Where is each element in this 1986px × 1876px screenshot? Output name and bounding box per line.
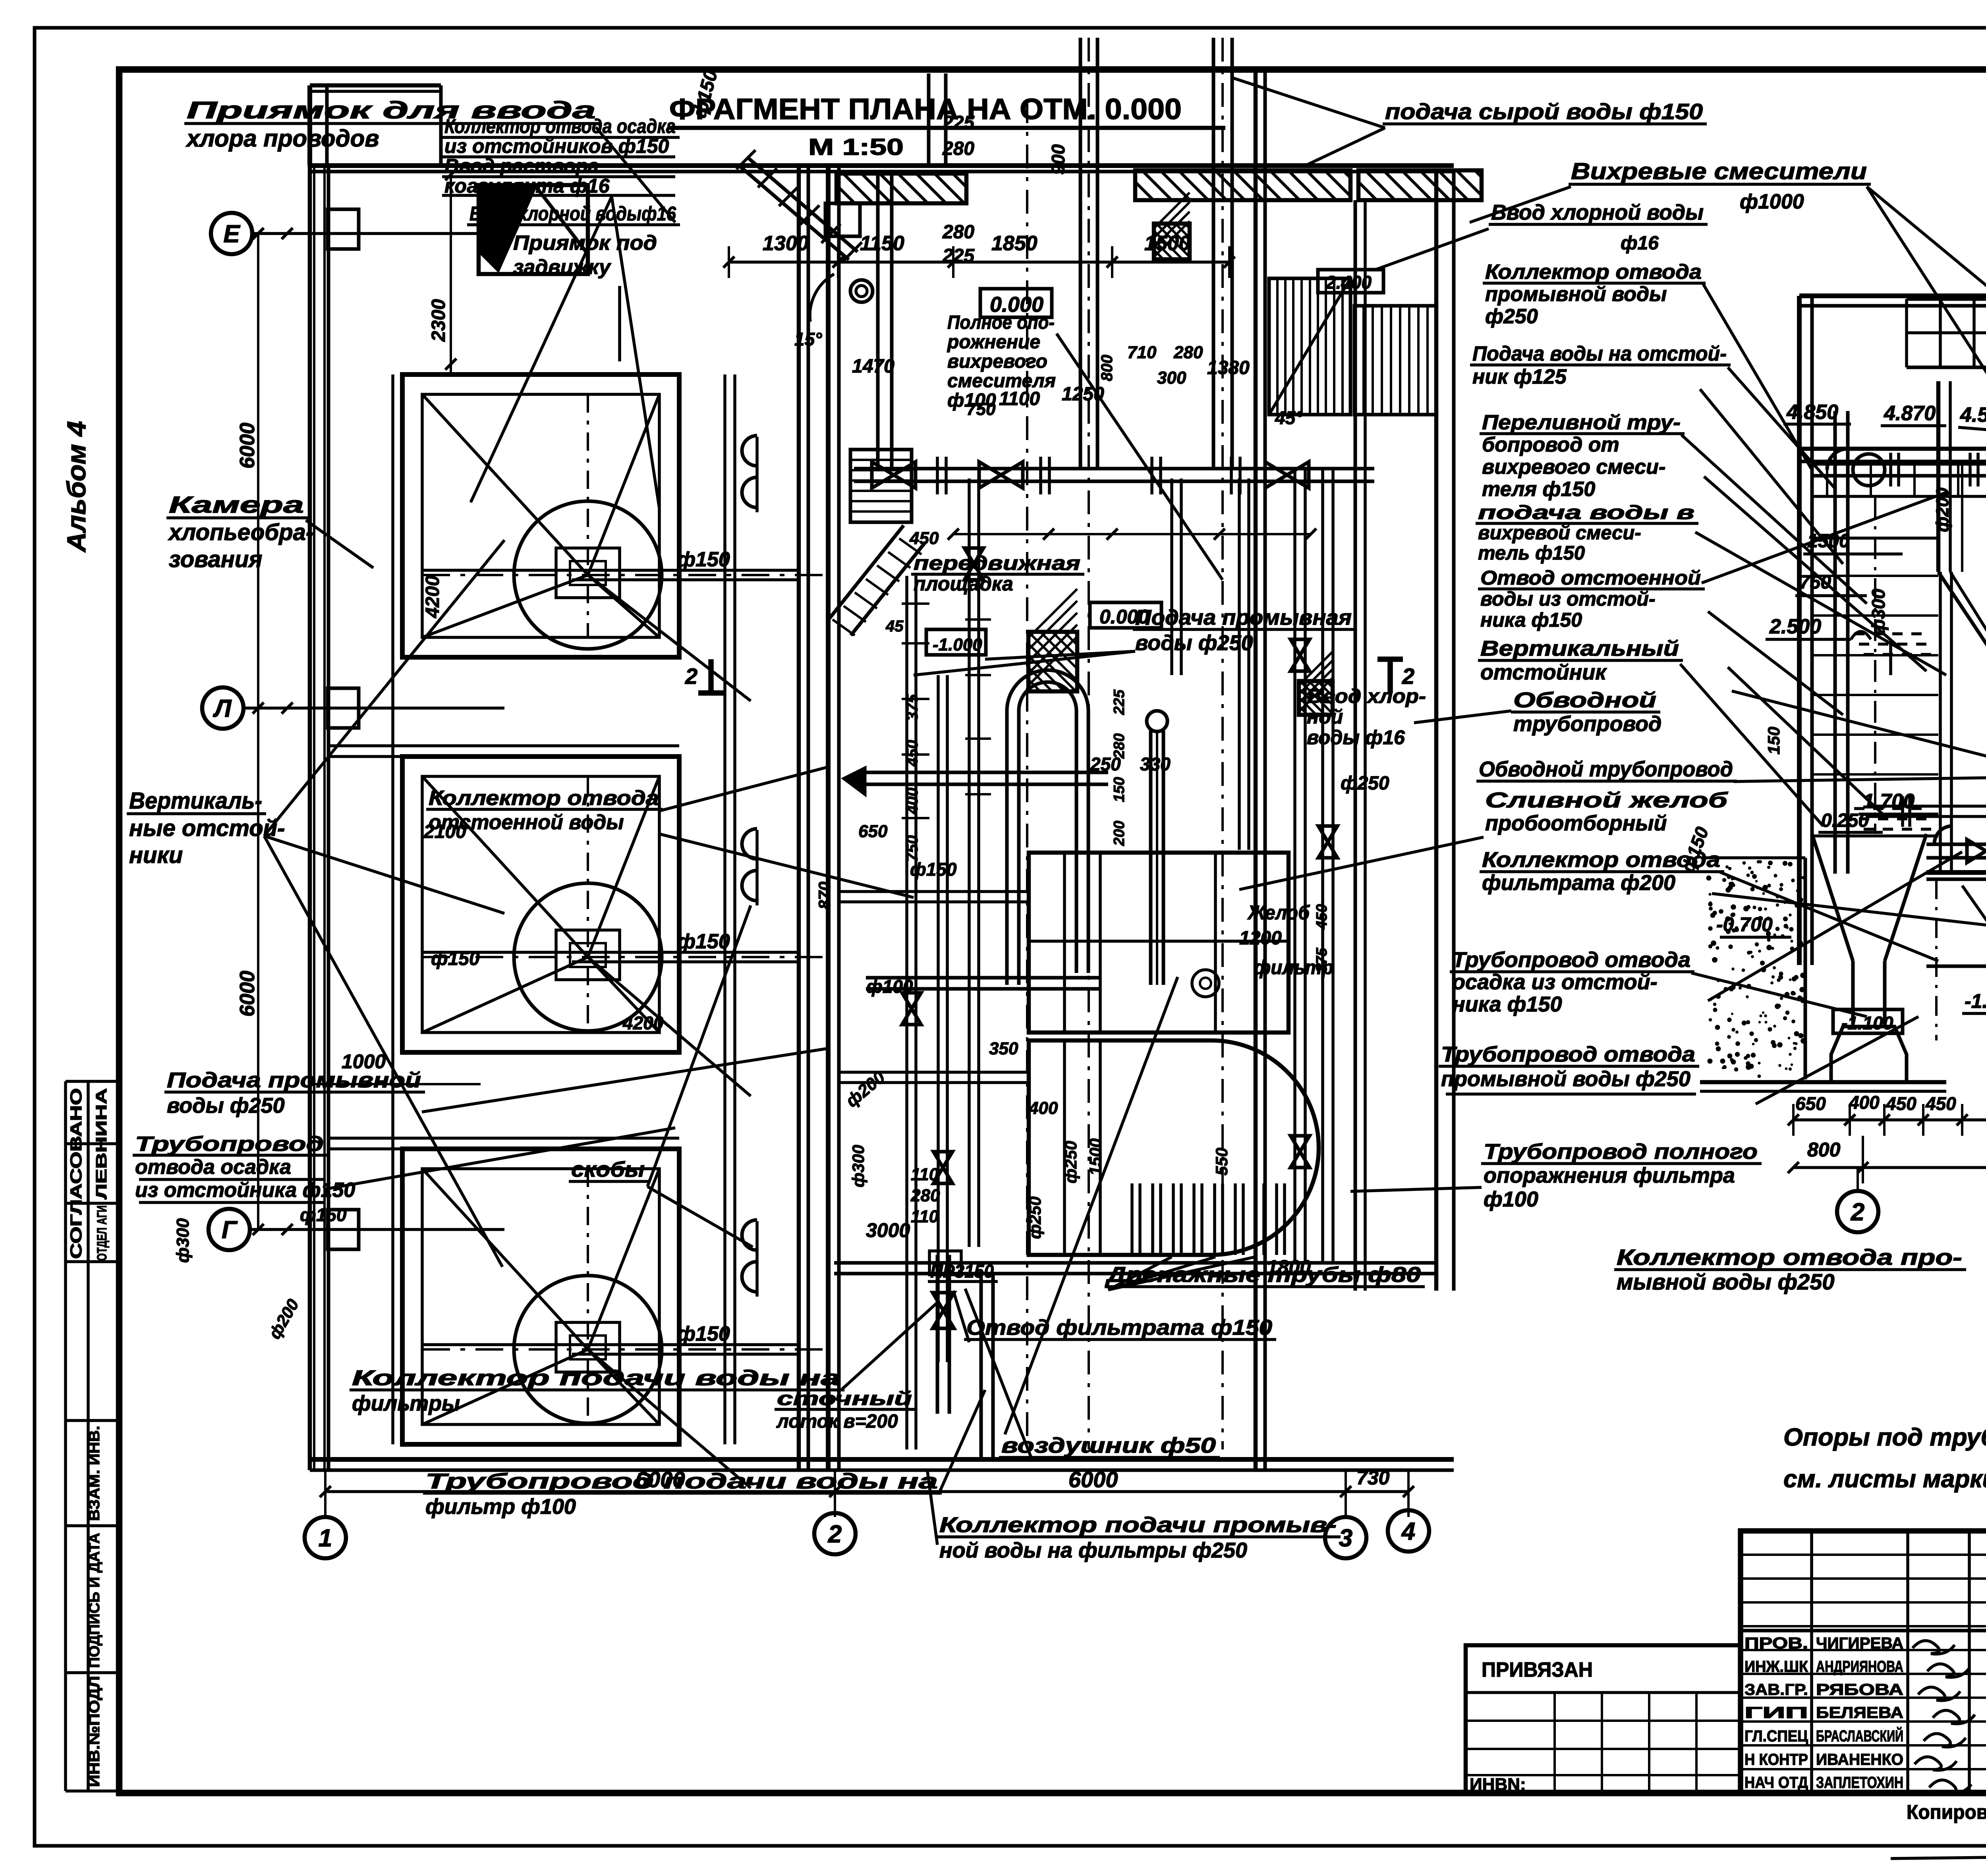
svg-text:650: 650 [858,822,888,841]
svg-text:2.500: 2.500 [1769,615,1821,638]
svg-text:Трубопровод отвода: Трубопровод отвода [1441,1042,1695,1066]
svg-text:800: 800 [1807,1139,1841,1161]
svg-text:Коллектор отвода: Коллектор отвода [429,787,659,810]
settler tank 3 [402,1149,679,1444]
svg-text:ф250: ф250 [1061,1141,1080,1183]
bottom pipe riser 1 [936,1255,939,1414]
svg-text:ФРАГМЕНТ ПЛАНА НА ОТМ. 0.000: ФРАГМЕНТ ПЛАНА НА ОТМ. 0.000 [669,93,1182,125]
svg-text:4200: 4200 [622,1013,664,1033]
svg-text:воды ф250: воды ф250 [167,1094,285,1117]
svg-text:задвижку: задвижку [513,256,612,279]
svg-text:ф150: ф150 [677,548,730,571]
svg-text:БЕЛЯЕВА: БЕЛЯЕВА [1816,1704,1903,1722]
svg-text:промывной воды ф250: промывной воды ф250 [1441,1067,1690,1091]
svg-text:ные отстой-: ные отстой- [129,815,285,841]
svg-text:Трубопровод отвода: Трубопровод отвода [1452,948,1690,972]
section cut mark 2 left [708,659,714,693]
settler brick texture [1812,575,1938,577]
svg-text:150: 150 [1111,777,1128,802]
axis circle 3 [1325,1517,1366,1558]
svg-text:ф250: ф250 [1026,1197,1044,1239]
svg-text:225: 225 [1111,689,1128,715]
svg-text:Копировал: Коршунова: Копировал: Коршунова [1907,1801,1986,1823]
svg-text:смесителя: смесителя [947,371,1056,392]
filter hall horizontal pipes [839,890,1029,893]
riser below wall [876,175,880,469]
section dimension chain [1793,1118,1986,1121]
filter tank 1 [1029,853,1289,1033]
axis circle 1 [305,1517,346,1558]
svg-text:110: 110 [911,1165,939,1184]
svg-text:ОТДЕЛ АГИ: ОТДЕЛ АГИ [95,1205,110,1261]
svg-text:350: 350 [989,1039,1018,1058]
svg-text:отвода осадка: отвода осадка [135,1156,291,1179]
settler cone [1812,834,1853,961]
svg-text:400: 400 [1849,1092,1880,1113]
svg-text:330: 330 [1140,754,1171,774]
svg-text:870: 870 [815,882,834,909]
svg-text:промывной воды: промывной воды [1485,283,1667,306]
axis circle Л [202,687,243,729]
section floor 0.000 [1926,870,1986,875]
svg-text:фильтрата ф200: фильтрата ф200 [1482,871,1675,895]
svg-text:ИВАНЕНКО: ИВАНЕНКО [1816,1751,1903,1768]
svg-text:ИНВN:: ИНВN: [1470,1775,1526,1794]
svg-text:280: 280 [942,138,974,159]
svg-text:375: 375 [904,694,921,721]
svg-text:пробоотборный: пробоотборный [1485,811,1667,835]
svg-text:900: 900 [1048,144,1068,175]
hatched wall segment 1 [837,174,966,203]
svg-text:Переливной тру-: Переливной тру- [1482,411,1681,434]
svg-text:400: 400 [904,787,921,814]
svg-text:225: 225 [942,112,975,133]
svg-text:1500: 1500 [1086,1139,1105,1175]
svg-text:теля ф150: теля ф150 [1482,478,1595,501]
svg-text:1850: 1850 [991,232,1037,255]
svg-text:Ввод хлор-: Ввод хлор- [1307,685,1426,707]
svg-text:550: 550 [1212,1148,1231,1175]
svg-text:Коллектор подачи воды на: Коллектор подачи воды на [352,1366,840,1390]
svg-text:ЛЕВНИНА: ЛЕВНИНА [93,1088,110,1199]
svg-text:СОГЛАСОВАНО: СОГЛАСОВАНО [68,1088,85,1259]
svg-text:Подача промывной: Подача промывной [167,1068,421,1092]
signatures scribbles [1913,1641,1955,1654]
low pipe left [1926,843,1986,846]
main title block [1741,1531,1986,1793]
plan bottom wall [310,1457,1454,1462]
diagonal pipe with hatch [740,166,849,260]
svg-text:ф100: ф100 [866,976,913,997]
svg-text:2: 2 [1851,1199,1864,1226]
wall band between tanks 1-2 [402,656,679,659]
svg-text:ф150: ф150 [677,1322,730,1345]
axis circle 4 [1388,1510,1429,1552]
boxed level -1.000 [926,629,986,655]
svg-text:Отвод фильтрата ф150: Отвод фильтрата ф150 [966,1316,1272,1339]
svg-text:ф300: ф300 [849,1145,867,1187]
svg-text:300: 300 [1157,368,1186,388]
svg-text:воды ф250: воды ф250 [1135,631,1253,655]
leader X lines lower section [1962,886,1986,1259]
svg-text:ник ф125: ник ф125 [1472,365,1567,388]
svg-text:Альбом 4: Альбом 4 [62,421,91,553]
svg-text:БРАСЛАВСКИЙ: БРАСЛАВСКИЙ [1816,1727,1903,1745]
svg-text:ф200: ф200 [1933,487,1952,532]
svg-text:трубопровод: трубопровод [1513,712,1661,736]
plan wall far right [1434,170,1439,1291]
air vent U loop [1005,711,1009,985]
svg-text:ГИП: ГИП [1745,1704,1808,1722]
svg-text:4: 4 [1401,1518,1415,1545]
drain pipes (дренажные трубы) [1130,1183,1134,1255]
svg-text:площадка: площадка [914,573,1013,595]
svg-text:ПРИВЯЗАН: ПРИВЯЗАН [1482,1658,1593,1681]
svg-text:750: 750 [904,835,921,862]
svg-text:см. листы марки КЖ.: см. листы марки КЖ. [1783,1465,1986,1493]
svg-text:Отвод отстоенной: Отвод отстоенной [1480,567,1701,589]
black corner marker (приямок) [479,185,588,274]
brick band below slab [1812,495,1986,498]
svg-text:лоток в=200: лоток в=200 [776,1411,898,1432]
svg-text:бопровод от: бопровод от [1482,433,1619,456]
svg-text:45: 45 [885,618,904,635]
svg-text:Трубопровод подачи воды на: Трубопровод подачи воды на [425,1469,938,1493]
horizontal pipe ф100 y2462 [866,976,1100,980]
svg-text:Вертикальный: Вертикальный [1480,637,1679,660]
svg-text:ИНЖ.ШК: ИНЖ.ШК [1745,1658,1808,1675]
svg-text:ф300: ф300 [173,1218,193,1263]
svg-text:1470: 1470 [852,356,894,377]
svg-text:ф150: ф150 [431,948,480,969]
hatched wall segment 3 [1358,170,1482,200]
valve ПРЗ150 [929,1251,961,1275]
svg-text:ф100: ф100 [1484,1187,1538,1211]
svg-text:ф1000: ф1000 [1740,190,1804,213]
boxed level -1.100 [1833,1009,1903,1033]
vent riser with funnel [1149,731,1153,985]
left margin stamp strip [64,1081,67,1791]
svg-text:ф16: ф16 [1621,233,1659,254]
svg-text:ника ф150: ника ф150 [1452,992,1562,1016]
svg-text:ЧИГИРЕВА: ЧИГИРЕВА [1816,1635,1903,1652]
axis circle 2 section [1837,1191,1878,1232]
svg-text:4.500: 4.500 [1960,403,1986,427]
svg-text:М 1:50: М 1:50 [808,134,904,160]
svg-text:ЗАВ.ГР.: ЗАВ.ГР. [1745,1681,1808,1698]
wall at 3412 [1354,200,1357,1291]
svg-text:Обводной трубопровод: Обводной трубопровод [1479,757,1733,781]
svg-text:6000: 6000 [236,423,259,469]
svg-text:НАЧ ОТД: НАЧ ОТД [1745,1774,1808,1791]
riser pipe pair C (long) [1212,38,1215,469]
svg-text:ники: ники [129,842,183,868]
svg-text:150: 150 [1764,727,1783,755]
svg-text:280: 280 [1111,733,1128,759]
svg-text:подача сырой воды ф150: подача сырой воды ф150 [1385,99,1703,124]
svg-text:450: 450 [1925,1093,1956,1114]
svg-text:1500: 1500 [1807,531,1850,552]
svg-text:ной воды на фильтры ф250: ной воды на фильтры ф250 [939,1538,1247,1562]
svg-text:ГЛ.СПЕЦ: ГЛ.СПЕЦ [1745,1727,1808,1745]
svg-text:Г: Г [222,1216,238,1244]
svg-text:1380: 1380 [1207,357,1250,378]
svg-text:вихревой смеси-: вихревой смеси- [1478,522,1641,544]
foundation pedestal [1831,1027,1907,1082]
svg-text:ф150: ф150 [677,930,730,953]
svg-text:РЯБОВА: РЯБОВА [1816,1681,1903,1698]
svg-text:450: 450 [904,740,921,767]
plan wall axis 2 [797,166,801,1470]
svg-text:ИНВ.№ПОДЛ: ИНВ.№ПОДЛ [86,1676,103,1787]
svg-text:Приямок под: Приямок под [513,232,657,255]
mixer 1 walls [1936,381,1941,572]
svg-text:Л: Л [213,695,232,722]
horizontal pipe ф100 y1945 [866,771,1108,774]
svg-text:фильтр ф100: фильтр ф100 [425,1495,576,1519]
crosshatch square right [1299,681,1333,715]
label 2.500 arrow [1889,643,1892,675]
small stamp ПРИВЯЗАН [1466,1645,1741,1793]
hatched movable platform [1028,632,1077,691]
svg-text:Желоб: Желоб [1247,901,1310,924]
axis circle Е [211,213,252,254]
boxed level 0.000 a [980,289,1052,317]
svg-text:280: 280 [910,1186,940,1205]
svg-text:710: 710 [1127,343,1157,362]
section inner wall [1833,411,1837,874]
svg-text:200: 200 [1111,821,1128,846]
plan left wall extension above [307,85,312,166]
svg-text:15°: 15° [794,329,822,349]
svg-text:800: 800 [1098,355,1116,381]
settler tank 2 [402,757,679,1052]
horizontal drain channel bottom [834,1261,1436,1265]
extra dim row mid plan [953,533,1311,535]
svg-text:воздушник ф50: воздушник ф50 [1001,1434,1216,1457]
svg-text:Вертикаль-: Вертикаль- [129,788,262,814]
svg-text:из отстойников ф150: из отстойников ф150 [444,135,669,157]
plan left wall [308,166,312,1470]
svg-text:ника ф150: ника ф150 [1480,609,1582,631]
section dimension chain 2 [1793,1166,1986,1169]
svg-text:Камера: Камера [169,492,304,518]
stair flight top right [1269,278,1350,415]
svg-text:Вихревые смесители: Вихревые смесители [1571,158,1867,184]
svg-text:Ввод хлорной воды: Ввод хлорной воды [1491,201,1704,224]
water level dashes upper [1854,632,1864,635]
section roof slab 6.800 [1799,293,1986,298]
svg-text:1200: 1200 [1239,928,1282,949]
mixer support columns [1939,572,1942,872]
svg-text:Сливной желоб: Сливной желоб [1485,788,1728,812]
svg-text:передвижная: передвижная [914,552,1080,574]
extra vertical pipes mid plan [1170,479,1173,675]
plan top wall [310,163,1454,168]
svg-text:2: 2 [828,1521,842,1548]
svg-text:подача воды в: подача воды в [1478,502,1694,523]
vertical dim 2300 [450,175,452,373]
foundation dotted wedge [1706,858,1805,1079]
svg-text:хлора проводов: хлора проводов [185,125,379,152]
svg-text:2: 2 [685,664,697,689]
svg-text:-1.000: -1.000 [933,635,982,654]
svg-text:ф150: ф150 [300,1204,347,1225]
svg-text:фильтр: фильтр [1254,956,1333,979]
svg-text:730: 730 [1356,1467,1390,1489]
svg-text:-0.700: -0.700 [1716,913,1773,936]
left vertical dimension line [257,234,259,1229]
svg-text:Коллектор отвода про-: Коллектор отвода про- [1617,1245,1962,1270]
svg-text:Коллектор отвода осадка: Коллектор отвода осадка [444,115,676,137]
chamber tank common left wall [391,374,394,1444]
svg-text:-1.800: -1.800 [1965,990,1986,1012]
settler internal lines [1812,537,1938,540]
svg-text:450: 450 [1886,1093,1916,1114]
horizontal pipe at 1165 [1812,462,1986,466]
mixer 1 cone [1938,572,1986,655]
leader bundle middle-section [1728,667,1883,814]
svg-text:110: 110 [911,1207,939,1226]
svg-text:Коллектор отвода: Коллектор отвода [1485,261,1702,284]
svg-text:воды из отстой-: воды из отстой- [1480,588,1656,610]
svg-text:750: 750 [1799,572,1831,593]
svg-text:зования: зования [169,546,262,572]
staples on wall [742,436,757,466]
plan wall right inner [1254,71,1258,1470]
svg-text:хлопьеобра-: хлопьеобра- [168,519,313,545]
right gallery pipes [1293,469,1296,1263]
extra pipe run above floor [1867,805,1986,808]
axis circle 2 [814,1513,856,1554]
filter tank 2 (rounded end) [1029,1040,1319,1255]
svg-text:вихревого: вихревого [947,351,1047,372]
svg-text:450: 450 [1314,904,1330,930]
svg-text:225: 225 [942,245,975,266]
svg-text:фильтры: фильтры [352,1392,460,1415]
svg-text:ф100: ф100 [947,390,996,411]
small valve circle on diagonal [850,280,873,302]
settler tank 1 [402,374,679,657]
svg-text:Н КОНТР: Н КОНТР [1745,1751,1808,1768]
riser pipe pair B (long) [1079,38,1082,469]
svg-text:Трубопровод полного: Трубопровод полного [1484,1140,1758,1164]
hatched wall small block [825,203,860,236]
svg-text:Опоры под трубопроводы и а: Опоры под трубопроводы и арматуру [1783,1424,1986,1451]
svg-text:Подача воды на отстой-: Подача воды на отстой- [1472,342,1727,365]
section cut mark 2 right [1387,659,1393,693]
svg-text:Полное опо-: Полное опо- [947,312,1055,333]
stair mid plan [850,450,912,522]
svg-text:1: 1 [319,1525,332,1552]
svg-text:вихревого смеси-: вихревого смеси- [1482,455,1665,479]
svg-text:ПРОВ.: ПРОВ. [1745,1635,1808,1652]
long center pipes [905,576,908,1449]
svg-text:2.400: 2.400 [1325,272,1372,293]
wall band between tanks 2-3 [402,1051,679,1054]
svg-text:4.850: 4.850 [1786,401,1838,424]
svg-text:отстойник: отстойник [1480,660,1607,684]
bottom pipe riser 2 [979,1275,983,1459]
plan top dimension line [729,261,1231,264]
horizontal pipe row y1180 [854,467,1374,471]
svg-text:3000: 3000 [866,1219,910,1241]
svg-text:0.250: 0.250 [1821,810,1869,831]
svg-text:из отстойника ф150: из отстойника ф150 [135,1179,355,1202]
svg-text:ВЗАМ. ИНВ.: ВЗАМ. ИНВ. [86,1426,103,1521]
svg-text:3: 3 [1339,1525,1352,1552]
svg-text:рожнение: рожнение [947,332,1040,353]
svg-text:6000: 6000 [236,971,259,1017]
svg-text:Подача промывная: Подача промывная [1135,606,1352,629]
svg-text:Обводной: Обводной [1513,688,1656,712]
section left wall [1797,296,1802,965]
svg-text:осадка из отстой-: осадка из отстой- [1452,970,1658,994]
svg-text:6000: 6000 [1068,1467,1118,1492]
svg-text:мывной воды ф250: мывной воды ф250 [1617,1269,1835,1294]
svg-text:АНДРИЯНОВА: АНДРИЯНОВА [1816,1658,1903,1675]
svg-text:сточный: сточный [777,1388,912,1409]
svg-text:280: 280 [1173,343,1203,362]
boxed level 2.400 [1318,270,1383,293]
mixer floor slab 4.200 [1799,447,1986,451]
svg-text:Трубопровод: Трубопровод [135,1133,324,1156]
svg-text:1150: 1150 [860,232,904,255]
svg-text:650: 650 [1795,1093,1826,1114]
hatched wall segment 2 [1135,170,1350,200]
svg-text:4200: 4200 [422,575,443,618]
inclined hatched ramp [829,525,904,620]
svg-text:отстоенной воды: отстоенной воды [429,811,624,834]
svg-text:опоражнения фильтра: опоражнения фильтра [1484,1164,1735,1187]
svg-text:280: 280 [942,222,974,243]
svg-text:тель ф150: тель ф150 [1478,542,1585,564]
boxed level 0.000 b [1090,602,1161,628]
svg-text:2300: 2300 [428,299,449,342]
svg-text:скобы: скобы [571,1158,645,1181]
svg-text:1300: 1300 [763,232,809,255]
svg-text:400: 400 [1028,1098,1058,1118]
svg-text:ЗАПЛЕТОХИН: ЗАПЛЕТОХИН [1816,1774,1903,1791]
svg-text:Коллектор подачи промыв-: Коллектор подачи промыв- [939,1513,1337,1537]
crosshatch square top [1154,224,1190,259]
svg-text:4.870: 4.870 [1884,402,1936,425]
svg-text:ф250: ф250 [1341,773,1389,794]
svg-text:ПР3150: ПР3150 [930,1261,994,1282]
wall right of tanks [723,374,726,1444]
svg-text:воды ф16: воды ф16 [1307,726,1405,749]
svg-text:Е: Е [223,220,240,248]
svg-text:ной: ной [1307,706,1343,728]
platform railing grid [1907,297,1986,301]
svg-text:450: 450 [909,529,939,548]
svg-text:-1.100: -1.100 [1841,1013,1893,1033]
svg-text:Ввод хлорной водыф16: Ввод хлорной водыф16 [469,203,676,225]
svg-text:45°: 45° [1275,407,1303,428]
water level dashes lower [1854,807,1864,810]
svg-text:ф250: ф250 [1485,305,1538,328]
plan bottom dimension line [325,1490,1408,1493]
svg-text:ПОДПИСЬ И ДАТА: ПОДПИСЬ И ДАТА [86,1533,103,1668]
riser pipe pair A [927,73,931,166]
axis circle Г [209,1209,250,1250]
stair flight top right second [1354,306,1436,415]
